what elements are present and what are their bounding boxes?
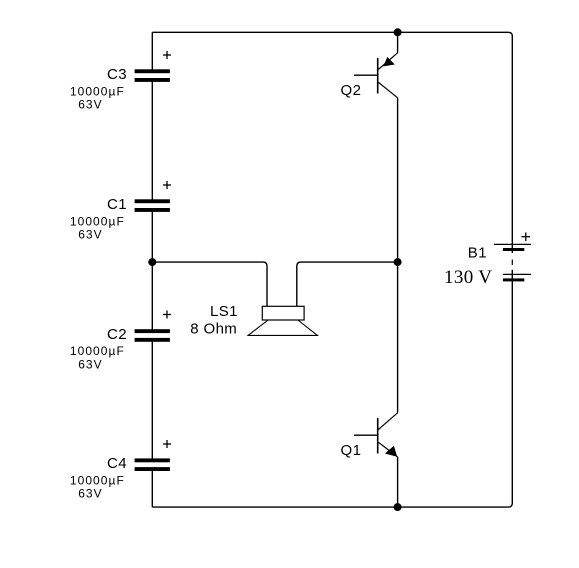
speaker LS1 [190,303,317,338]
Q1 emitter arrow [385,446,397,457]
svg-text:C1: C1 [107,196,127,213]
capacitor C1 [70,181,171,242]
polarity + of C2 [163,314,171,316]
polarity + of C4 [163,443,171,445]
B1 positive plate bottom cell [503,273,531,275]
Q2 base lead [354,74,378,76]
svg-text:Q1: Q1 [341,442,362,459]
wire center vertical mid node to Q1 collector [397,262,399,413]
capacitor C2 [70,311,171,372]
capacitor C4 [70,440,171,501]
svg-text:63V: 63V [78,357,103,371]
svg-text:B1: B1 [468,244,487,261]
Q1 emitter lead [378,442,397,457]
wire left rail segment 2 [151,80,153,201]
svg-text:LS1: LS1 [210,303,238,320]
Q1 base bar [377,418,379,454]
node left rail mid junction [148,258,156,266]
B1 negative plate bottom cell [503,278,524,281]
capacitor C4 plates [135,458,170,462]
transistor Q2 [341,53,398,99]
wire left rail segment 5 [151,469,153,507]
wire speaker right lead to mid node [297,262,398,306]
wire right rail lower segment and bottom rail [152,270,512,507]
capacitor C1 plates [135,199,170,203]
svg-text:C2: C2 [107,326,127,343]
svg-text:10000µF: 10000µF [70,344,125,358]
svg-text:10000µF: 10000µF [70,473,125,487]
node center mid junction [394,258,402,266]
wire top rail and right rail upper segment [152,32,512,253]
capacitor C3 plates [135,69,170,73]
svg-text:8 Ohm: 8 Ohm [190,321,237,338]
svg-text:63V: 63V [78,228,103,242]
Q1 base lead [354,434,378,436]
Q1 collector lead [378,413,397,430]
Q2 collector lead [378,82,397,98]
wire center vertical Q1 emitter to bottom rail [397,457,399,507]
B1 positive plate top cell [494,243,531,245]
svg-text:Q2: Q2 [341,82,362,99]
B1 negative plate top cell [503,248,524,251]
polarity + of C1 [163,184,171,186]
wire left rail segment 4 [151,339,153,460]
Q2 base bar [377,58,379,94]
svg-text:C3: C3 [107,66,127,83]
node top rail junction [394,28,402,36]
svg-text:C4: C4 [107,455,127,472]
wire center vertical Q2 emitter feed [397,32,399,53]
transistor Q1 [341,413,398,459]
wire left rail segment 3 [151,210,153,331]
LS1 magnet body [262,306,304,320]
node bottom rail junction [394,503,402,511]
capacitor C3 [70,51,171,112]
Q2 emitter arrow [383,57,395,66]
wire center vertical Q2 collector to mid node [397,98,399,262]
svg-text:130 V: 130 V [444,267,492,288]
svg-text:63V: 63V [78,487,103,501]
svg-text:10000µF: 10000µF [70,214,125,228]
polarity + of B1 [522,236,531,238]
Q2 emitter lead [378,53,397,70]
LS1 cone [248,320,317,335]
wire left rail segment 1 [151,32,153,71]
wire mid node to speaker left lead [152,262,267,306]
svg-text:10000µF: 10000µF [70,84,125,98]
polarity + of C3 [163,54,171,56]
wire battery dashed gap [511,260,513,266]
svg-text:63V: 63V [78,98,103,112]
battery B1 [444,233,531,289]
capacitor C2 plates [135,329,170,333]
